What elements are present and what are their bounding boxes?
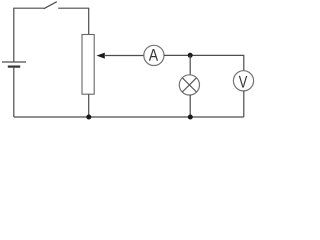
wire: lamp to bottom rail: [189, 95, 191, 117]
ammeter label A: [149, 49, 158, 61]
wire: ammeter to junction node: [164, 54, 190, 56]
lamp L (circle with X): [179, 75, 199, 95]
wire: junction to top-right corner and down to voltmeter: [190, 55, 244, 70]
lamp X diagonal 2: [182, 78, 196, 92]
wire: voltmeter down to bottom rail: [243, 91, 245, 117]
wire: rheostat bottom to bottom rail: [88, 94, 90, 117]
junction node (bottom, below rheostat): [86, 115, 91, 120]
voltmeter label V: [239, 76, 247, 88]
voltmeter V (circle): [233, 71, 253, 91]
switch S (open blade): [44, 2, 57, 9]
rheostat R (slider resistor) body: [82, 35, 94, 95]
wire: bottom rail: [14, 116, 244, 118]
battery cell: short negative plate: [8, 65, 20, 67]
battery cell: long positive plate: [2, 61, 26, 63]
wire: top-left from battery up and right to switch: [14, 8, 44, 62]
junction node (bottom, below lamp): [188, 115, 193, 120]
lamp X diagonal 1: [182, 78, 196, 92]
wire: battery down to bottom rail: [13, 67, 15, 117]
wire: junction down to lamp: [189, 55, 191, 75]
wire: wiper to ammeter: [104, 55, 144, 57]
junction node (top, at lamp branch): [188, 53, 193, 58]
rheostat wiper arrowhead: [97, 53, 105, 59]
ammeter A (circle): [144, 45, 164, 65]
wire: switch to top of rheostat: [58, 8, 88, 34]
